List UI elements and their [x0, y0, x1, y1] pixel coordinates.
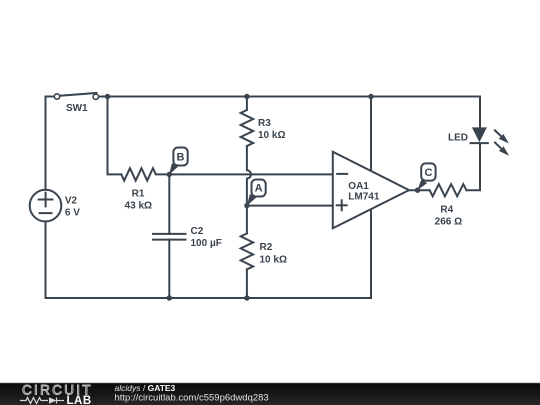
svg-text:LED: LED — [448, 133, 468, 144]
svg-text:SW1: SW1 — [66, 103, 88, 114]
svg-text:http://circuitlab.com/c559p6dw: http://circuitlab.com/c559p6dwdq283 — [115, 392, 269, 403]
svg-text:LM741: LM741 — [348, 192, 380, 203]
svg-text:266 Ω: 266 Ω — [435, 217, 462, 228]
svg-text:10 kΩ: 10 kΩ — [258, 130, 285, 141]
svg-text:43 kΩ: 43 kΩ — [125, 201, 152, 212]
svg-text:B: B — [177, 152, 185, 164]
svg-text:C2: C2 — [191, 226, 204, 237]
svg-text:V2: V2 — [65, 196, 78, 207]
svg-text:100 µF: 100 µF — [191, 238, 222, 249]
svg-text:R1: R1 — [132, 189, 145, 200]
svg-text:6 V: 6 V — [65, 208, 80, 219]
svg-text:R3: R3 — [258, 118, 271, 129]
svg-text:A: A — [255, 183, 263, 195]
svg-text:C: C — [425, 167, 433, 179]
svg-text:LAB: LAB — [67, 395, 92, 405]
svg-text:10 kΩ: 10 kΩ — [260, 254, 287, 265]
svg-text:R2: R2 — [260, 242, 273, 253]
svg-text:R4: R4 — [440, 205, 453, 216]
svg-text:OA1: OA1 — [348, 181, 369, 192]
